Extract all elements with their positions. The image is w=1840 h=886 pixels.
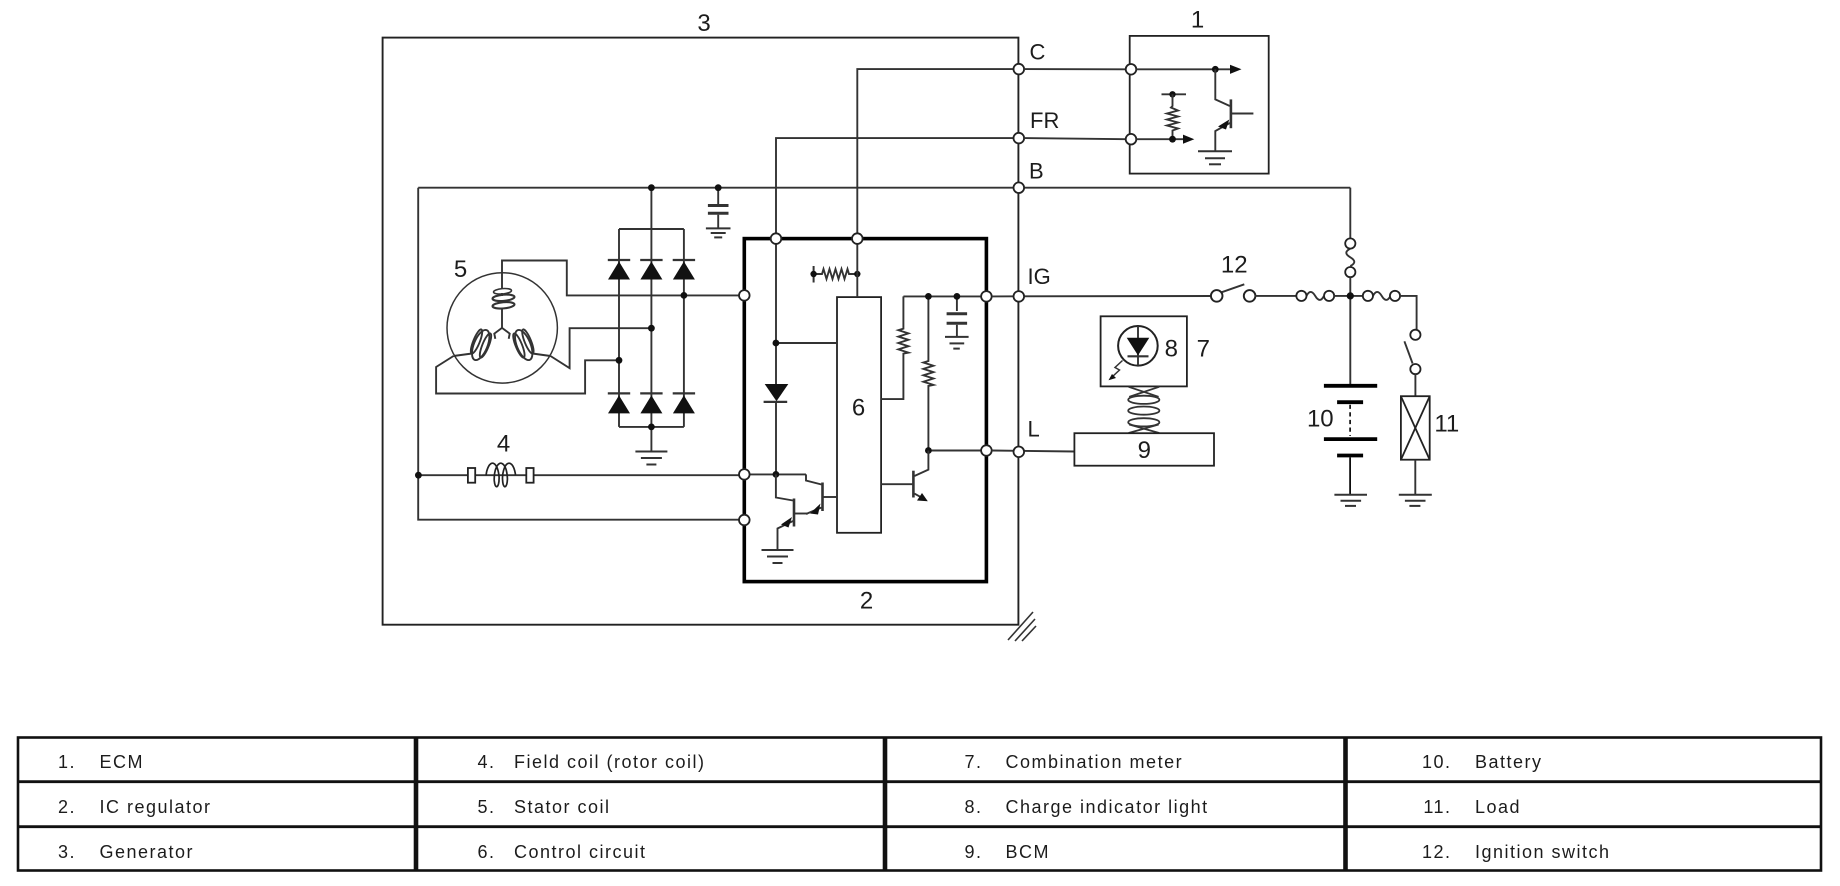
junction L node bbox=[925, 447, 932, 454]
wire IG to connector bbox=[1255, 295, 1297, 297]
terminal L bbox=[1014, 447, 1025, 458]
svg-text:3: 3 bbox=[697, 10, 710, 37]
wire ECM FR internal bbox=[1136, 135, 1194, 144]
wire L internal bbox=[928, 450, 981, 452]
svg-text:Ignition switch: Ignition switch bbox=[1475, 842, 1611, 862]
field coil 4 wire bbox=[418, 474, 741, 476]
generator box 3 bbox=[383, 38, 1019, 625]
field coil brush left bbox=[468, 468, 475, 483]
wire switch to load bbox=[1414, 374, 1416, 396]
wire field line in box2 bbox=[750, 474, 822, 484]
wire load to ground bbox=[1414, 460, 1416, 494]
diode D4 bbox=[608, 393, 630, 413]
lamp spring coil bbox=[1128, 387, 1159, 433]
wire stator phase B bbox=[551, 328, 652, 368]
svg-text:5.: 5. bbox=[477, 797, 495, 817]
svg-text:L: L bbox=[1028, 417, 1040, 442]
junction bottom bus bbox=[648, 424, 655, 431]
capacitor C2 bbox=[947, 296, 968, 336]
load switch bbox=[1404, 330, 1420, 375]
lightning arrow bbox=[1109, 361, 1123, 381]
wire FR to ECM bbox=[1024, 138, 1126, 139]
svg-text:8.: 8. bbox=[964, 797, 982, 817]
svg-text:3.: 3. bbox=[58, 842, 76, 862]
junction zener top bbox=[773, 340, 780, 347]
wire battery drop bbox=[1349, 188, 1351, 239]
svg-text:7.: 7. bbox=[964, 752, 982, 772]
svg-text:6.: 6. bbox=[477, 842, 495, 862]
connector battery pair bbox=[1345, 238, 1355, 277]
diode D6 bbox=[673, 393, 695, 413]
wire battery to junction bbox=[1349, 277, 1351, 385]
terminal circle E on box2 bbox=[739, 515, 750, 526]
svg-text:8: 8 bbox=[1165, 336, 1178, 363]
capacitor C1 on B bus bbox=[708, 188, 729, 228]
svg-text:Generator: Generator bbox=[100, 842, 195, 862]
svg-text:Field coil (rotor coil): Field coil (rotor coil) bbox=[514, 752, 706, 772]
diode D5 bbox=[640, 393, 662, 413]
wire C to ECM bbox=[1024, 68, 1126, 70]
terminal circle FR on box2 bbox=[771, 233, 782, 244]
rectifier bottom bus bbox=[619, 426, 684, 428]
terminal C bbox=[1014, 64, 1025, 75]
junction phaseB-col2 bbox=[648, 325, 655, 332]
svg-text:11: 11 bbox=[1434, 411, 1459, 438]
junction C2 top bbox=[954, 293, 961, 300]
battery 10 bbox=[1324, 386, 1377, 494]
svg-text:7: 7 bbox=[1197, 336, 1210, 363]
diode D2 bbox=[640, 260, 662, 280]
connector pair 2 bbox=[1363, 291, 1400, 301]
svg-text:6: 6 bbox=[852, 395, 865, 422]
terminal FR bbox=[1014, 133, 1025, 144]
ground darlington bbox=[762, 550, 794, 563]
control circuit box 6 bbox=[837, 297, 881, 533]
svg-text:Control circuit: Control circuit bbox=[514, 842, 647, 862]
resistor R2 bbox=[881, 296, 908, 399]
terminal ECM FR bbox=[1126, 134, 1137, 145]
svg-text:9.: 9. bbox=[964, 842, 982, 862]
terminal circle field on box2 bbox=[739, 469, 750, 480]
svg-text:FR: FR bbox=[1030, 108, 1059, 133]
wire zener branch bbox=[776, 244, 837, 384]
wire IG line bbox=[992, 295, 1212, 297]
terminal circle C on box2 bbox=[852, 233, 863, 244]
svg-text:BCM: BCM bbox=[1006, 842, 1051, 862]
rectifier column 3 bbox=[683, 229, 685, 427]
terminal circle phase on box2 bbox=[739, 290, 750, 301]
svg-text:9: 9 bbox=[1138, 437, 1151, 464]
wire IG to load switch bbox=[1400, 296, 1417, 330]
svg-text:Battery: Battery bbox=[1475, 752, 1543, 772]
terminal circle IG on box2 bbox=[981, 291, 992, 302]
wire stator phase C bbox=[436, 356, 619, 394]
zener diode Z1 bbox=[764, 384, 789, 475]
svg-text:12.: 12. bbox=[1422, 842, 1452, 862]
wire ECM C internal bbox=[1136, 65, 1241, 74]
wire L line bbox=[992, 451, 1075, 452]
ground battery bbox=[1334, 495, 1367, 506]
diode D3 bbox=[673, 260, 695, 280]
combination meter box 7 bbox=[1101, 316, 1187, 386]
svg-text:2: 2 bbox=[860, 588, 873, 615]
junction B-cap bbox=[715, 184, 722, 191]
load 11 bbox=[1401, 396, 1430, 460]
svg-text:IC regulator: IC regulator bbox=[100, 797, 212, 817]
rectifier column 1 bbox=[618, 229, 620, 427]
terminal IG bbox=[1014, 291, 1025, 302]
generator inner frame bbox=[418, 188, 741, 520]
wire IG internal bbox=[903, 295, 981, 297]
terminal ECM C bbox=[1126, 64, 1137, 75]
svg-text:10.: 10. bbox=[1422, 752, 1452, 772]
ECM box 1 bbox=[1130, 36, 1269, 174]
wire stator phase A bbox=[502, 261, 741, 296]
junction ECM C bbox=[1212, 66, 1219, 73]
transistor Q1 bbox=[795, 483, 837, 515]
diode D1 bbox=[608, 260, 630, 280]
charge indicator light 8 bbox=[1118, 326, 1158, 366]
field coil brush right bbox=[526, 468, 533, 483]
connector pair 1 bbox=[1296, 291, 1334, 301]
transistor Q4 bbox=[1215, 69, 1253, 150]
transistor Q3 bbox=[881, 451, 928, 502]
svg-text:2.: 2. bbox=[58, 797, 76, 817]
rectifier ground bbox=[635, 427, 667, 465]
terminal B bbox=[1014, 182, 1025, 193]
wire FR drop bbox=[776, 138, 1014, 234]
junction phaseA-col3 bbox=[681, 292, 688, 299]
BCM box 9 bbox=[1074, 433, 1214, 466]
svg-text:4.: 4. bbox=[477, 752, 495, 772]
junction field tap bbox=[415, 472, 422, 479]
svg-text:12: 12 bbox=[1221, 252, 1248, 279]
resistor R3 bbox=[923, 296, 933, 450]
transistor Q2 bbox=[776, 474, 794, 549]
ground load bbox=[1399, 495, 1432, 506]
svg-text:Load: Load bbox=[1475, 797, 1521, 817]
svg-text:B: B bbox=[1029, 159, 1044, 184]
junction B-col2 bbox=[648, 184, 655, 191]
ignition switch 12 bbox=[1211, 284, 1256, 301]
junction R3 top bbox=[925, 293, 932, 300]
svg-text:Charge indicator light: Charge indicator light bbox=[1006, 797, 1209, 817]
svg-text:5: 5 bbox=[454, 256, 467, 283]
svg-text:1: 1 bbox=[1191, 7, 1204, 34]
svg-text:1.: 1. bbox=[58, 752, 76, 772]
legend table bbox=[18, 738, 1821, 871]
resistor R4 bbox=[1162, 91, 1187, 139]
svg-text:Combination meter: Combination meter bbox=[1006, 752, 1184, 772]
wire B bus bbox=[418, 187, 1350, 189]
svg-text:4: 4 bbox=[497, 431, 510, 458]
chassis ground hatch bbox=[1008, 612, 1036, 641]
terminal circle L on box2 bbox=[981, 445, 992, 456]
stator coil 5 bbox=[447, 273, 557, 383]
capacitor C1 ground bbox=[706, 228, 731, 237]
capacitor C2 ground bbox=[945, 337, 969, 349]
junction field node bbox=[773, 471, 780, 478]
rectifier column 2 bbox=[650, 188, 652, 427]
field coil 4 bbox=[486, 463, 515, 487]
svg-text:11.: 11. bbox=[1423, 797, 1451, 817]
svg-text:10: 10 bbox=[1307, 406, 1334, 433]
IC regulator box 2 bbox=[744, 239, 986, 582]
junction phaseC-col1 bbox=[616, 357, 623, 364]
wire connector middle bbox=[1334, 295, 1363, 297]
junction IG battery bbox=[1347, 292, 1354, 299]
svg-text:C: C bbox=[1030, 40, 1046, 65]
svg-text:Stator coil: Stator coil bbox=[514, 797, 611, 817]
ground ECM bbox=[1198, 151, 1232, 164]
wire C drop bbox=[857, 69, 1014, 234]
rectifier top bus bbox=[619, 228, 684, 230]
svg-text:ECM: ECM bbox=[100, 752, 145, 772]
resistor R1 top bbox=[810, 266, 860, 283]
wire C to box6 bbox=[856, 244, 858, 297]
svg-text:IG: IG bbox=[1028, 264, 1051, 289]
